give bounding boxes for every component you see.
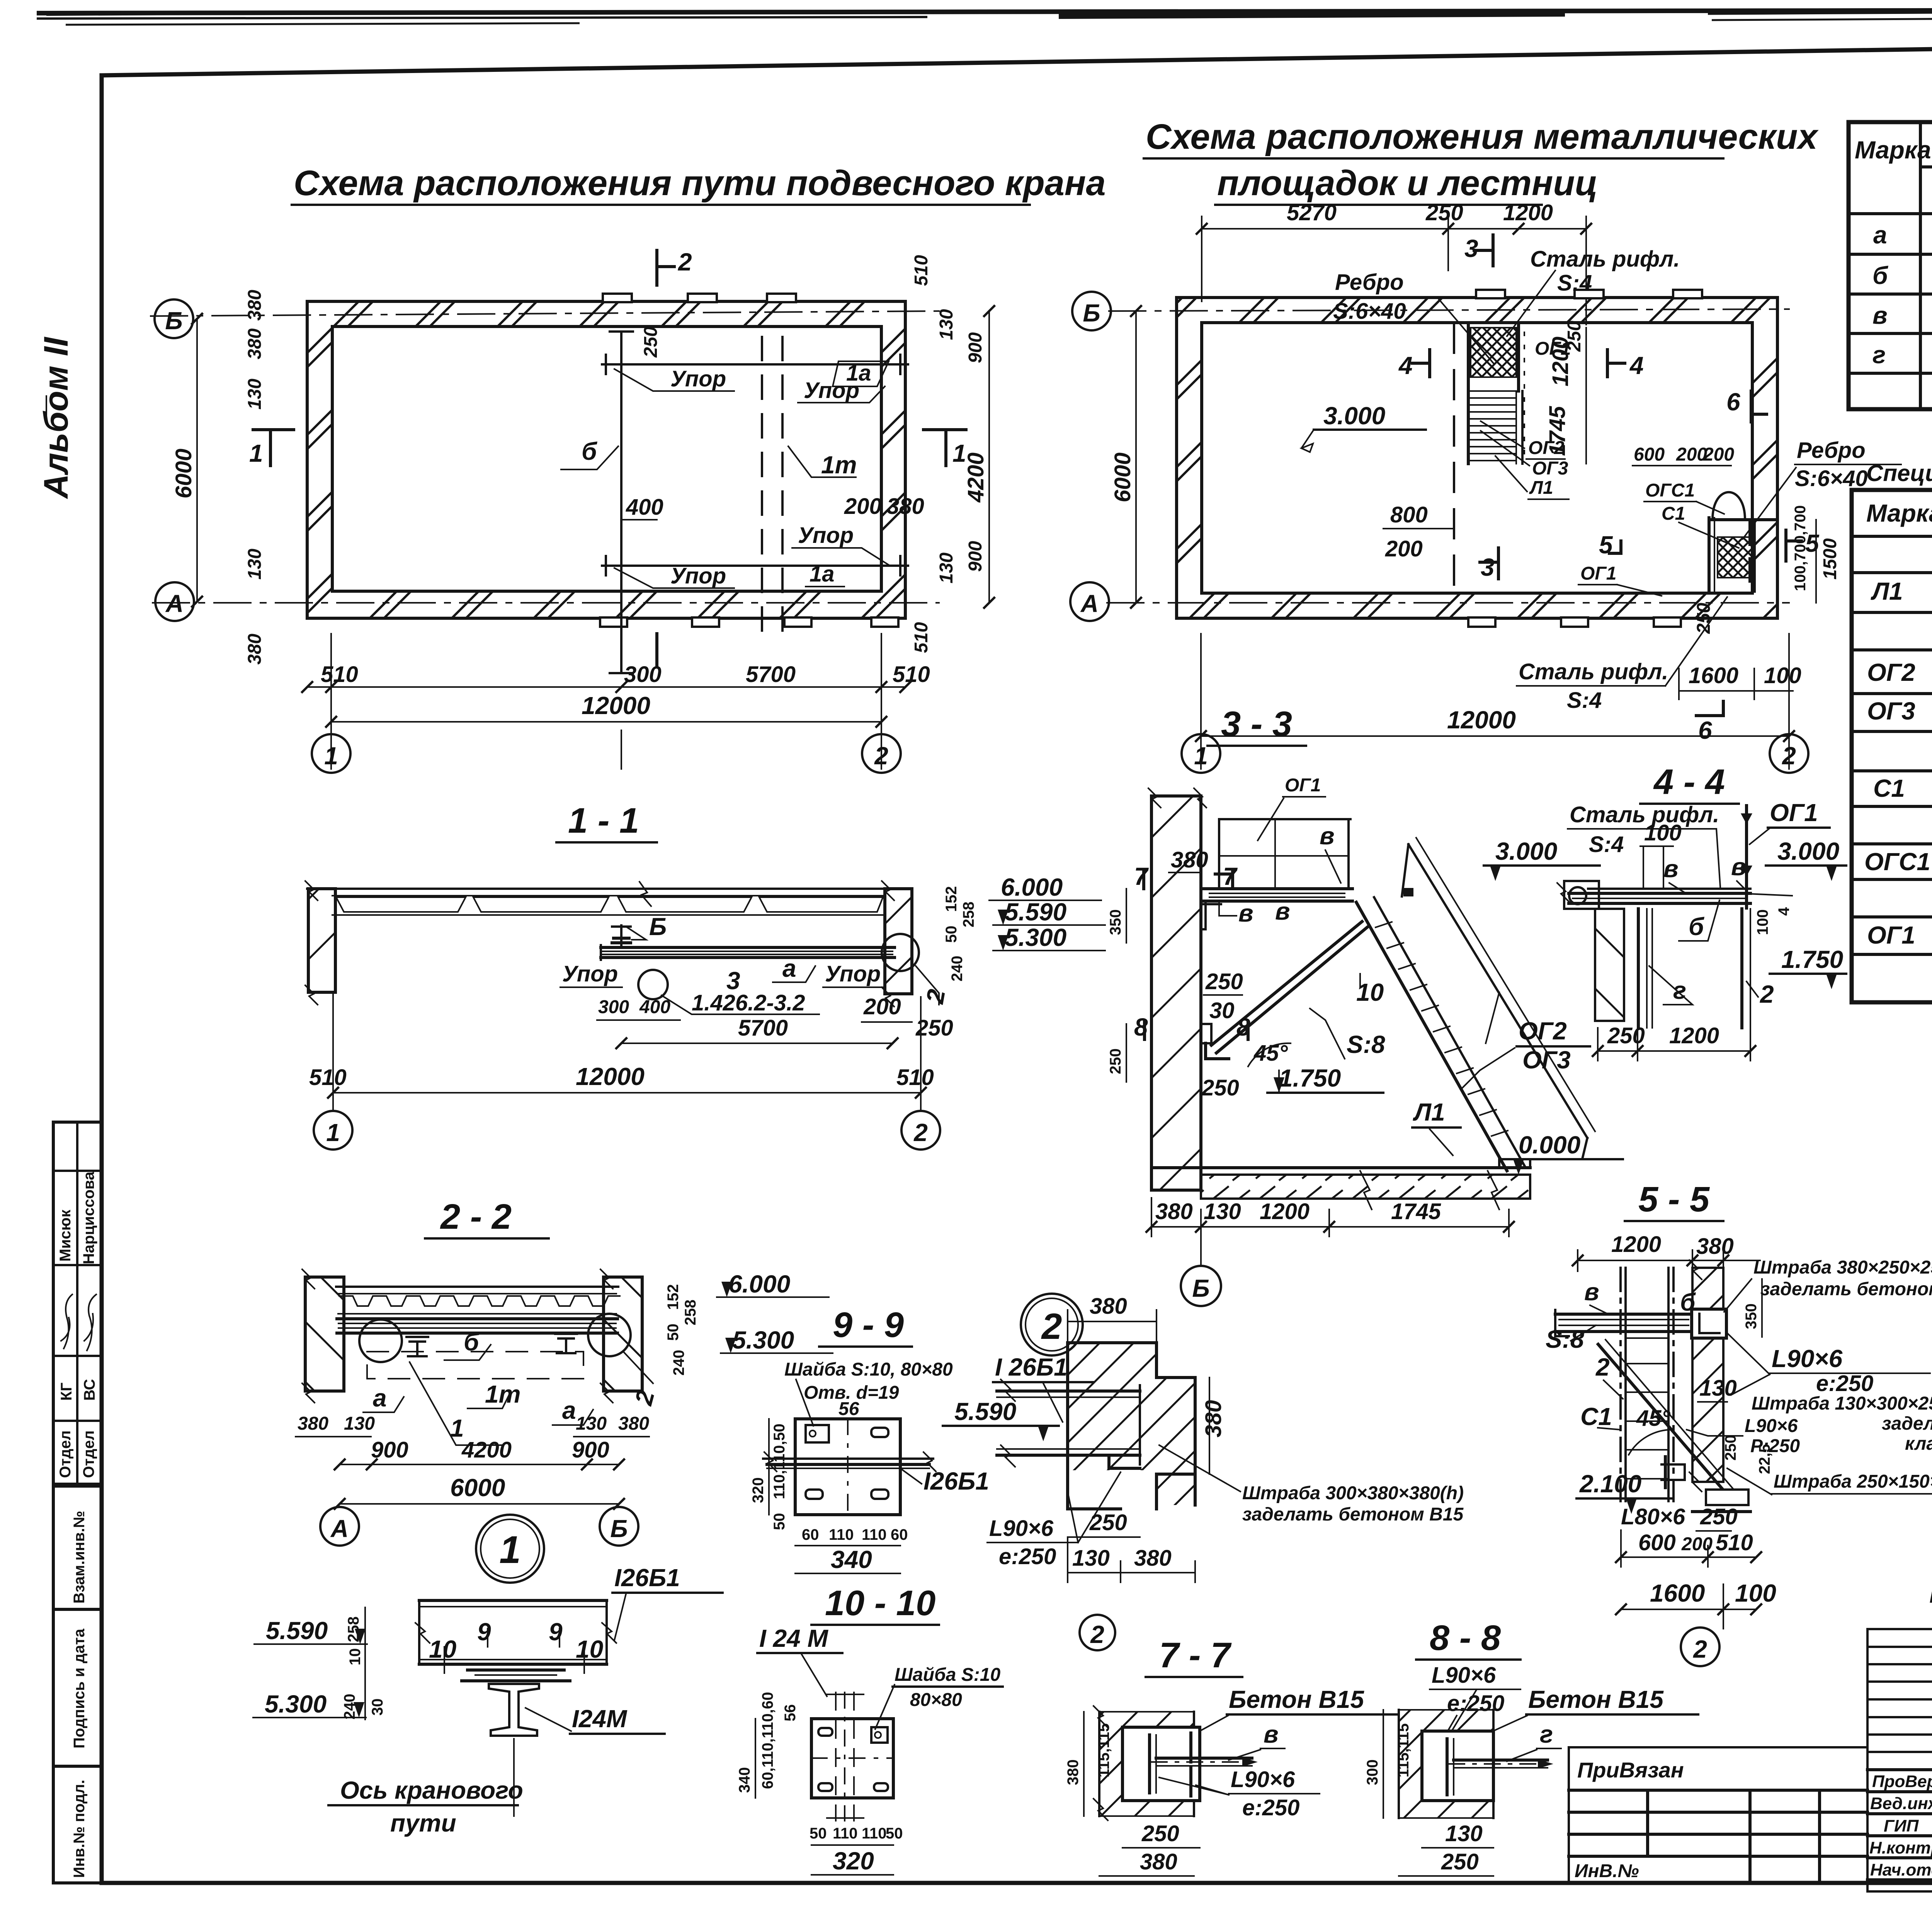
title block <box>1867 1629 1932 1932</box>
svg-text:ОГ1: ОГ1 <box>1580 563 1617 584</box>
svg-text:S:8: S:8 <box>1546 1325 1584 1353</box>
ladder rungs 5-5 <box>1626 1338 1668 1479</box>
svg-text:L90×6: L90×6 <box>989 1516 1054 1541</box>
wall hatch plan1 <box>307 301 905 618</box>
svg-text:4200: 4200 <box>963 452 988 503</box>
svg-text:400: 400 <box>626 495 663 520</box>
posts 4-4 <box>1637 909 1640 1028</box>
svg-text:100: 100 <box>1644 820 1682 845</box>
axis label Ось кранового пути <box>513 1739 515 1816</box>
svg-text:30: 30 <box>369 1699 386 1716</box>
ОГ1 post 4-4 <box>1745 806 1748 908</box>
platform railing ОГ1 3-3 <box>1219 818 1350 820</box>
svg-text:I24M: I24M <box>572 1705 628 1733</box>
top wall notches <box>603 294 632 302</box>
svg-text:130: 130 <box>936 553 957 583</box>
embedded box 7-7 <box>1122 1727 1200 1801</box>
svg-text:Вед.инж: Вед.инж <box>1870 1794 1932 1813</box>
svg-text:S:4: S:4 <box>1567 688 1602 713</box>
svg-text:1745: 1745 <box>1391 1199 1441 1224</box>
circle 2 5-5 <box>1681 1628 1719 1666</box>
svg-text:2: 2 <box>1760 980 1774 1008</box>
svg-text:240: 240 <box>670 1350 687 1376</box>
section flag 5 right <box>1784 530 1787 561</box>
svg-text:заделать бетоном В15: заделать бетоном В15 <box>1760 1279 1932 1299</box>
svg-text:6000: 6000 <box>171 449 196 498</box>
svg-text:800: 800 <box>1390 502 1428 527</box>
svg-text:Б: Б <box>649 913 667 940</box>
stair railing ОГ2 ОГ3 3-3 <box>1408 844 1587 1138</box>
left stamp column lower boxes <box>53 1486 102 1883</box>
right wall 2-2 <box>604 1277 642 1391</box>
svg-text:1 - 1: 1 - 1 <box>568 801 639 840</box>
big circle 2 <box>1021 1294 1083 1355</box>
svg-text:2: 2 <box>1595 1353 1610 1381</box>
dim 5700 250 <box>621 1043 893 1044</box>
svg-text:7: 7 <box>1223 862 1238 890</box>
svg-text:Л1: Л1 <box>1529 478 1553 498</box>
svg-text:ОГ1: ОГ1 <box>1770 799 1818 827</box>
section 7-7 <box>1065 1636 1399 1876</box>
top wall notches plan2 <box>1476 290 1505 298</box>
svg-text:350: 350 <box>1107 909 1124 935</box>
svg-text:56: 56 <box>782 1704 799 1722</box>
grid circle 2 plan2 <box>1770 734 1808 773</box>
svg-text:130: 130 <box>1445 1821 1483 1846</box>
detail node 2 <box>943 1294 1464 1650</box>
svg-text:S:6×40: S:6×40 <box>1333 299 1406 324</box>
svg-text:9: 9 <box>477 1618 491 1646</box>
svg-text:258: 258 <box>682 1299 699 1325</box>
svg-text:2: 2 <box>874 742 888 770</box>
link circle right 1-1 <box>882 934 919 971</box>
svg-text:2.100: 2.100 <box>1579 1470 1641 1498</box>
svg-text:130: 130 <box>576 1413 607 1434</box>
svg-text:56: 56 <box>838 1399 859 1419</box>
svg-text:250: 250 <box>1107 1048 1124 1074</box>
circle Б 3-3 <box>1181 1266 1221 1306</box>
svg-text:10 - 10: 10 - 10 <box>825 1583 935 1623</box>
Альбом II rotated <box>37 337 75 499</box>
svg-text:заделать бетоном: заделать бетоном <box>1882 1413 1932 1434</box>
svg-text:240: 240 <box>341 1694 358 1719</box>
svg-text:в: в <box>1238 899 1253 927</box>
svg-text:5.590: 5.590 <box>954 1398 1016 1425</box>
svg-text:б: б <box>582 437 598 465</box>
svg-text:e:250: e:250 <box>999 1544 1056 1569</box>
svg-text:5.300: 5.300 <box>265 1690 327 1718</box>
grid circle 1 plan1 <box>312 734 350 773</box>
svg-text:258: 258 <box>960 901 977 927</box>
svg-text:ОГС1: ОГС1 <box>1864 848 1930 876</box>
svg-text:L90×6: L90×6 <box>1231 1767 1295 1792</box>
svg-text:Бетон В15: Бетон В15 <box>1229 1685 1364 1713</box>
bottom dims 4-4 <box>1598 1050 1750 1052</box>
svg-text:в: в <box>1275 897 1290 925</box>
svg-text:Штраба 380×250×250 (h): Штраба 380×250×250 (h) <box>1753 1257 1932 1278</box>
platform floor 3-3 <box>1201 887 1352 890</box>
svg-text:50: 50 <box>943 926 960 943</box>
svg-text:510: 510 <box>893 662 930 687</box>
svg-text:2 - 2: 2 - 2 <box>440 1197 512 1236</box>
svg-text:ОГ2: ОГ2 <box>1519 1017 1567 1045</box>
svg-text:4: 4 <box>1776 907 1793 916</box>
svg-text:б: б <box>1872 262 1889 289</box>
svg-text:Упор: Упор <box>825 961 881 986</box>
rod 8-8 <box>1454 1759 1548 1762</box>
svg-text:200: 200 <box>1385 536 1423 561</box>
svg-text:9 - 9: 9 - 9 <box>833 1305 904 1345</box>
svg-text:1а: 1а <box>810 561 835 587</box>
svg-text:510: 510 <box>1716 1530 1753 1555</box>
svg-text:e:250: e:250 <box>1242 1795 1299 1820</box>
svg-text:S:4: S:4 <box>1557 270 1592 296</box>
angle seat detail2 <box>1109 1455 1140 1468</box>
svg-text:200: 200 <box>1703 444 1734 465</box>
svg-text:200: 200 <box>863 994 901 1019</box>
section 10-10 <box>736 1583 1003 1875</box>
svg-text:900: 900 <box>965 332 986 363</box>
svg-text:5700: 5700 <box>746 662 796 687</box>
svg-text:250: 250 <box>1089 1510 1127 1535</box>
svg-text:50: 50 <box>771 1513 788 1531</box>
svg-text:258: 258 <box>345 1616 362 1642</box>
plan1 dim ticks <box>192 306 994 727</box>
svg-text:115,115: 115,115 <box>1395 1723 1412 1777</box>
svg-text:300: 300 <box>1364 1759 1381 1785</box>
svg-text:Отдел: Отдел <box>80 1430 97 1478</box>
svg-text:60: 60 <box>802 1526 819 1543</box>
svg-text:100: 100 <box>1764 663 1801 688</box>
bottom-left stamp table (Привязан) <box>1569 1747 1867 1883</box>
svg-text:320: 320 <box>750 1477 767 1503</box>
svg-text:S:4: S:4 <box>1589 832 1624 857</box>
svg-text:5700: 5700 <box>738 1015 788 1041</box>
svg-text:S:6×40: S:6×40 <box>1795 466 1868 491</box>
svg-text:380: 380 <box>1090 1294 1127 1319</box>
svg-text:г: г <box>1872 341 1886 369</box>
platform floor 4-4 <box>1588 888 1750 890</box>
svg-text:1200: 1200 <box>1260 1199 1310 1224</box>
ladder stringers 5-5 <box>1619 1268 1622 1501</box>
section 4-4 <box>1557 762 1846 1061</box>
svg-text:L90×6: L90×6 <box>1745 1416 1798 1436</box>
svg-text:380: 380 <box>887 494 924 519</box>
rod 7-7 <box>1156 1757 1252 1760</box>
grid circle 1 plan2 <box>1182 734 1220 773</box>
svg-text:площадок и лестниц: площадок и лестниц <box>1217 163 1598 203</box>
section 2-2 <box>296 1197 833 1546</box>
svg-text:Подпись и дата: Подпись и дата <box>71 1628 88 1748</box>
svg-text:350: 350 <box>1743 1303 1760 1329</box>
svg-text:в: в <box>1872 301 1888 329</box>
svg-text:12000: 12000 <box>582 692 650 719</box>
svg-text:600: 600 <box>1634 444 1665 465</box>
circle Б plan1 <box>155 299 193 338</box>
svg-text:5.590: 5.590 <box>1005 898 1066 926</box>
svg-text:КГ: КГ <box>58 1383 75 1401</box>
I beam dashed 10-10 <box>835 1692 837 1821</box>
dashed 1т rect 2-2 <box>367 1352 583 1379</box>
svg-text:1т: 1т <box>485 1380 521 1408</box>
stairwell shaft <box>1467 323 1470 464</box>
svg-text:6: 6 <box>1726 388 1740 416</box>
svg-text:г: г <box>1673 976 1686 1004</box>
circle А plan1 <box>155 582 194 621</box>
section 4-4 dim ticks <box>1593 1046 1755 1056</box>
angle support 3-3 <box>1201 1024 1211 1043</box>
svg-text:12000: 12000 <box>1447 706 1516 734</box>
svg-text:300: 300 <box>624 662 662 687</box>
svg-text:4200: 4200 <box>461 1437 512 1463</box>
section 3-3 <box>1107 704 1623 1306</box>
svg-text:250: 250 <box>1201 1075 1239 1100</box>
anchor 8-8 <box>1446 1739 1449 1795</box>
svg-text:Упор: Упор <box>670 366 726 391</box>
link circles 2-2 <box>359 1320 402 1362</box>
svg-text:Б: Б <box>1192 1274 1209 1302</box>
plan 1: Схема расположения пути подвесного крана <box>151 163 1106 773</box>
left stamp column upper box <box>53 1122 102 1484</box>
axis Б plan2 <box>1109 309 1789 311</box>
svg-text:380: 380 <box>1201 1400 1226 1437</box>
section flag 2 bottom <box>655 634 658 667</box>
svg-text:510: 510 <box>911 255 932 286</box>
rail 1a upper <box>602 363 908 366</box>
svg-text:400: 400 <box>639 997 670 1017</box>
svg-text:7: 7 <box>1134 862 1149 890</box>
plan 2: Схема расположения металлических площадок и лестниц <box>1070 117 1901 773</box>
svg-text:380: 380 <box>618 1413 649 1434</box>
plan2 dim ticks <box>1131 224 1794 741</box>
svg-text:60,110,110,60: 60,110,110,60 <box>759 1692 776 1789</box>
svg-text:ВС: ВС <box>81 1379 98 1401</box>
svg-text:80×80: 80×80 <box>910 1690 962 1710</box>
diagonal brace 5-5 <box>1598 1344 1727 1495</box>
fill dot top corner <box>1403 888 1413 896</box>
svg-text:5.590: 5.590 <box>266 1617 328 1645</box>
svg-text:Б: Б <box>1083 299 1100 327</box>
svg-text:10: 10 <box>576 1635 603 1663</box>
svg-text:50: 50 <box>665 1324 682 1341</box>
svg-text:1: 1 <box>249 439 263 467</box>
svg-text:L90×6: L90×6 <box>1432 1663 1496 1688</box>
svg-text:ИнВ.№: ИнВ.№ <box>1575 1861 1639 1881</box>
svg-text:I26Б1: I26Б1 <box>923 1467 989 1495</box>
crane beam 1-1 <box>601 946 895 949</box>
section 5-5 <box>1546 1180 1932 1666</box>
ladder C1 plan <box>1708 518 1711 591</box>
wall hatch plan2 <box>1177 298 1777 618</box>
dim 12000 1-1 <box>333 1092 921 1094</box>
svg-text:С1: С1 <box>1580 1403 1612 1430</box>
node circle 1-1 <box>638 970 668 999</box>
svg-text:320: 320 <box>833 1847 874 1875</box>
svg-text:Штраба 130×300×250 (h): Штраба 130×300×250 (h) <box>1752 1393 1932 1414</box>
svg-text:60: 60 <box>891 1526 908 1543</box>
svg-text:115,115: 115,115 <box>1095 1723 1112 1777</box>
svg-text:22,5: 22,5 <box>1756 1444 1773 1474</box>
svg-text:510: 510 <box>321 662 358 687</box>
svg-text:130: 130 <box>245 549 265 580</box>
axis А plan1 <box>153 602 939 604</box>
svg-text:4: 4 <box>1398 352 1413 379</box>
svg-text:а: а <box>373 1384 387 1412</box>
svg-text:600: 600 <box>1638 1530 1676 1555</box>
section flag 2 top <box>655 250 658 285</box>
svg-text:а: а <box>562 1396 576 1424</box>
svg-text:Примечания см. лист КМ1: Примечания см. лист КМ1 <box>1929 1577 1932 1609</box>
svg-text:в: в <box>1731 853 1746 881</box>
svg-text:380: 380 <box>245 290 265 321</box>
svg-text:2: 2 <box>913 1119 928 1146</box>
svg-text:3 - 3: 3 - 3 <box>1221 704 1292 744</box>
svg-text:1200: 1200 <box>1548 337 1573 386</box>
svg-text:в: в <box>1584 1278 1599 1306</box>
svg-text:Бетон В15: Бетон В15 <box>1528 1685 1664 1713</box>
svg-text:Взам.инв.№: Взам.инв.№ <box>71 1511 88 1604</box>
rail 1a lower <box>602 565 908 567</box>
wall hatch 7-7 <box>1099 1712 1194 1816</box>
dim 6000 plan2 rotated <box>1135 311 1137 603</box>
svg-text:5.300: 5.300 <box>1005 923 1066 951</box>
left wall hatch 4-4 <box>1595 909 1624 1021</box>
svg-text:1200: 1200 <box>1611 1232 1661 1257</box>
slab 2-2 <box>336 1286 618 1288</box>
stair stringers 3-3 <box>1356 902 1507 1171</box>
svg-text:б: б <box>464 1328 480 1356</box>
left wall 1-1 <box>308 889 335 992</box>
svg-text:e:250: e:250 <box>1816 1371 1873 1396</box>
top dims 5270 250 1200 <box>1202 228 1586 230</box>
bottom small plate 5-5 <box>1662 1464 1685 1480</box>
svg-text:1600: 1600 <box>1689 663 1738 688</box>
partition dashed <box>1453 324 1455 592</box>
svg-text:Ось кранового: Ось кранового <box>340 1776 523 1804</box>
grid circles А Б 2-2 <box>320 1507 359 1546</box>
svg-text:5270: 5270 <box>1287 200 1337 225</box>
svg-text:в: в <box>1264 1720 1279 1748</box>
svg-text:А: А <box>165 590 184 617</box>
svg-text:ОГС1: ОГС1 <box>1645 480 1695 501</box>
svg-text:1: 1 <box>499 1528 521 1571</box>
svg-text:Б: Б <box>610 1515 628 1543</box>
svg-text:1200: 1200 <box>1669 1023 1719 1048</box>
svg-text:заделать бетоном В15: заделать бетоном В15 <box>1242 1504 1464 1525</box>
section 3-3 dim ticks <box>1146 1222 1514 1232</box>
grid circle 2 plan1 <box>862 734 901 773</box>
I24M beam section <box>489 1684 539 1736</box>
svg-text:Схема расположения пути подвес: Схема расположения пути подвесного крана <box>294 163 1106 203</box>
svg-text:2: 2 <box>1041 1306 1062 1347</box>
svg-text:380: 380 <box>1140 1849 1177 1874</box>
svg-text:10: 10 <box>429 1635 456 1663</box>
svg-text:I26Б1: I26Б1 <box>614 1564 680 1592</box>
svg-text:в: в <box>1320 822 1335 850</box>
svg-text:Упор: Упор <box>804 378 859 403</box>
wall outlines plan1 <box>307 301 905 618</box>
svg-text:900: 900 <box>965 541 986 572</box>
svg-text:2: 2 <box>1090 1621 1104 1648</box>
axis Б plan1 <box>151 311 939 316</box>
svg-text:380: 380 <box>1155 1199 1193 1224</box>
svg-text:L90×6: L90×6 <box>1772 1345 1843 1372</box>
plate 10-10 <box>811 1719 893 1798</box>
svg-text:10: 10 <box>347 1648 364 1666</box>
svg-text:340: 340 <box>736 1767 753 1793</box>
svg-text:Упор: Упор <box>670 563 726 588</box>
top scan edge band <box>37 9 1932 25</box>
svg-text:100: 100 <box>1754 909 1771 935</box>
table Спецификация <box>1852 454 1932 1002</box>
wall 3-3 <box>1151 796 1201 1190</box>
svg-text:б: б <box>1689 913 1705 940</box>
svg-text:ПроВер.: ПроВер. <box>1872 1772 1932 1791</box>
beam box detail1 <box>419 1599 607 1602</box>
svg-text:380: 380 <box>245 634 265 665</box>
1т dashed beam strip <box>761 337 763 636</box>
svg-text:130: 130 <box>344 1413 375 1434</box>
svg-text:Марка: Марка <box>1866 499 1932 527</box>
svg-text:ГИП: ГИП <box>1884 1816 1919 1835</box>
svg-text:6: 6 <box>1698 716 1712 744</box>
svg-text:130: 130 <box>936 309 957 340</box>
crane rail б vertical <box>620 332 622 673</box>
svg-text:250: 250 <box>1441 1849 1479 1874</box>
svg-text:Отдел: Отдел <box>57 1430 74 1478</box>
svg-text:3.000: 3.000 <box>1495 837 1557 865</box>
bottom wall notches plan2 <box>1468 617 1495 627</box>
svg-text:Нарциссова: Нарциссова <box>80 1171 97 1264</box>
svg-text:250: 250 <box>641 327 661 358</box>
platform beam 5-5 <box>1555 1313 1692 1316</box>
svg-text:30: 30 <box>1209 998 1235 1023</box>
svg-text:ОГ3: ОГ3 <box>1522 1046 1571 1074</box>
platform hatched <box>1709 518 1777 521</box>
svg-text:12000: 12000 <box>576 1063 645 1090</box>
svg-text:7 - 7: 7 - 7 <box>1159 1636 1232 1675</box>
svg-text:250: 250 <box>1425 200 1463 225</box>
svg-text:6000: 6000 <box>1110 452 1135 502</box>
axis А plan2 <box>1107 602 1789 604</box>
svg-text:110: 110 <box>829 1526 854 1543</box>
svg-text:S:8: S:8 <box>1347 1031 1385 1058</box>
beam through plate 9-9 <box>763 1458 933 1460</box>
bottom dim row 510 300 5700 510 <box>307 686 905 688</box>
svg-text:6000: 6000 <box>450 1474 505 1502</box>
wall hatch detail2 <box>1068 1343 1195 1505</box>
dims 900 4200 900 2-2 <box>340 1464 619 1465</box>
svg-text:3: 3 <box>1464 235 1478 262</box>
section flag 1 left <box>253 428 294 431</box>
svg-text:ОГ2: ОГ2 <box>1867 658 1915 686</box>
beam 2-2 <box>337 1317 617 1320</box>
embedded box 8-8 <box>1422 1731 1493 1801</box>
svg-text:Л1: Л1 <box>1413 1098 1445 1126</box>
beam I26Б1 detail2 <box>997 1389 1140 1393</box>
grid circles 1-1 <box>314 1111 352 1150</box>
svg-text:200: 200 <box>844 494 882 519</box>
svg-text:510: 510 <box>309 1065 347 1090</box>
table grid <box>1849 122 1932 409</box>
svg-text:в: в <box>1663 855 1679 883</box>
svg-text:Б: Б <box>165 307 182 335</box>
svg-text:1.750: 1.750 <box>1781 946 1843 973</box>
wall hatch 5-5 <box>1692 1268 1723 1482</box>
svg-text:г: г <box>1540 1720 1553 1748</box>
table Ведомость элементов <box>1849 80 1932 409</box>
svg-text:340: 340 <box>831 1546 872 1573</box>
